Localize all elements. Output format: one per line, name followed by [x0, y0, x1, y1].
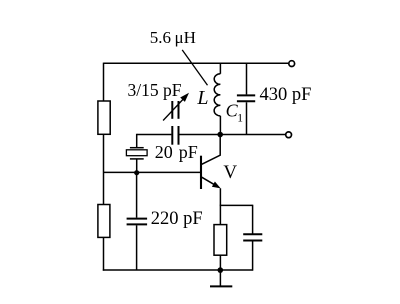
svg-text:220 pF: 220 pF	[151, 209, 203, 229]
svg-text:1: 1	[237, 113, 243, 125]
svg-text:430 pF: 430 pF	[260, 85, 312, 105]
svg-text:L: L	[196, 87, 208, 109]
svg-text:V: V	[223, 162, 237, 183]
svg-text:3/15 pF: 3/15 pF	[128, 80, 182, 100]
svg-text:5.6 μH: 5.6 μH	[150, 28, 196, 47]
svg-text:20 pF: 20 pF	[155, 142, 198, 162]
